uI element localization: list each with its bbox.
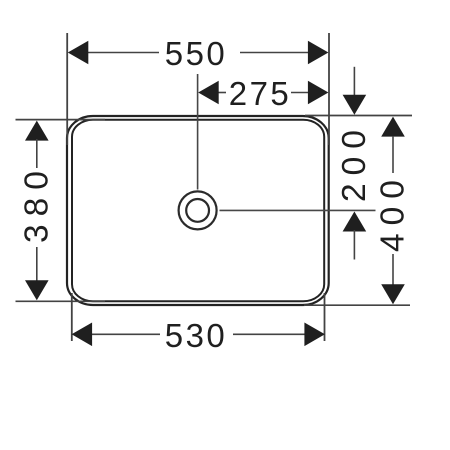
drain inner circle (186, 199, 209, 222)
extension line right of dim 550 and 275 (328, 33, 330, 145)
svg-text:380: 380 (18, 163, 55, 243)
extension line left of dim 550 (66, 33, 68, 145)
vertical centre line of drain (197, 74, 199, 190)
basin outer rim (67, 116, 329, 305)
svg-text:275: 275 (229, 75, 292, 112)
basin inner rim (72, 120, 324, 302)
drain outer circle (179, 191, 217, 229)
dim 275 line right segment (291, 92, 310, 94)
dim 530 line left segment (91, 333, 160, 335)
dim 380 bottom arrow (25, 280, 49, 300)
dim 200 top leader stem (353, 67, 355, 96)
dim 275 right arrow (308, 81, 329, 105)
dim 400 top arrow pointing up (381, 117, 405, 137)
dim 550 right arrow (308, 41, 329, 65)
extension line top left (inner top edge, for dim 380) (16, 119, 106, 121)
dim 380 line bottom segment (36, 247, 38, 282)
dim 380 line top segment (36, 139, 38, 168)
extension line top right (outer top edge, for dims 200 and 400) (305, 115, 412, 117)
dim 400 line top segment (392, 136, 394, 173)
dim 400 bottom arrow pointing down (381, 284, 405, 304)
dim 275 line left segment (218, 92, 226, 94)
horizontal centre line of drain (220, 209, 376, 211)
dim 380 top arrow (25, 121, 49, 141)
dim 550 left arrow (68, 41, 89, 65)
dim 530 line right segment (233, 333, 306, 335)
dim 200 bottom arrow pointing up (343, 212, 367, 232)
dim 400 line bottom segment (392, 254, 394, 285)
svg-text:200: 200 (336, 122, 373, 202)
extension line right of dim 530 (324, 293, 326, 341)
dim 550 line right segment (240, 52, 310, 54)
extension line bottom left (inner bottom edge, for dim 380) (16, 300, 106, 302)
dim 275 left arrow (198, 81, 219, 105)
dim 550 line left segment (86, 52, 159, 54)
svg-text:400: 400 (375, 172, 412, 252)
dim 200 top arrow pointing down (343, 95, 367, 115)
extension line bottom right (outer bottom edge, for dim 400) (304, 304, 410, 306)
extension line left of dim 530 (71, 293, 73, 341)
dim 530 left arrow (72, 323, 93, 347)
dim 530 right arrow (304, 323, 325, 347)
dim 200 bottom leader stem (353, 230, 355, 260)
svg-text:530: 530 (165, 317, 228, 354)
svg-text:550: 550 (165, 35, 228, 72)
